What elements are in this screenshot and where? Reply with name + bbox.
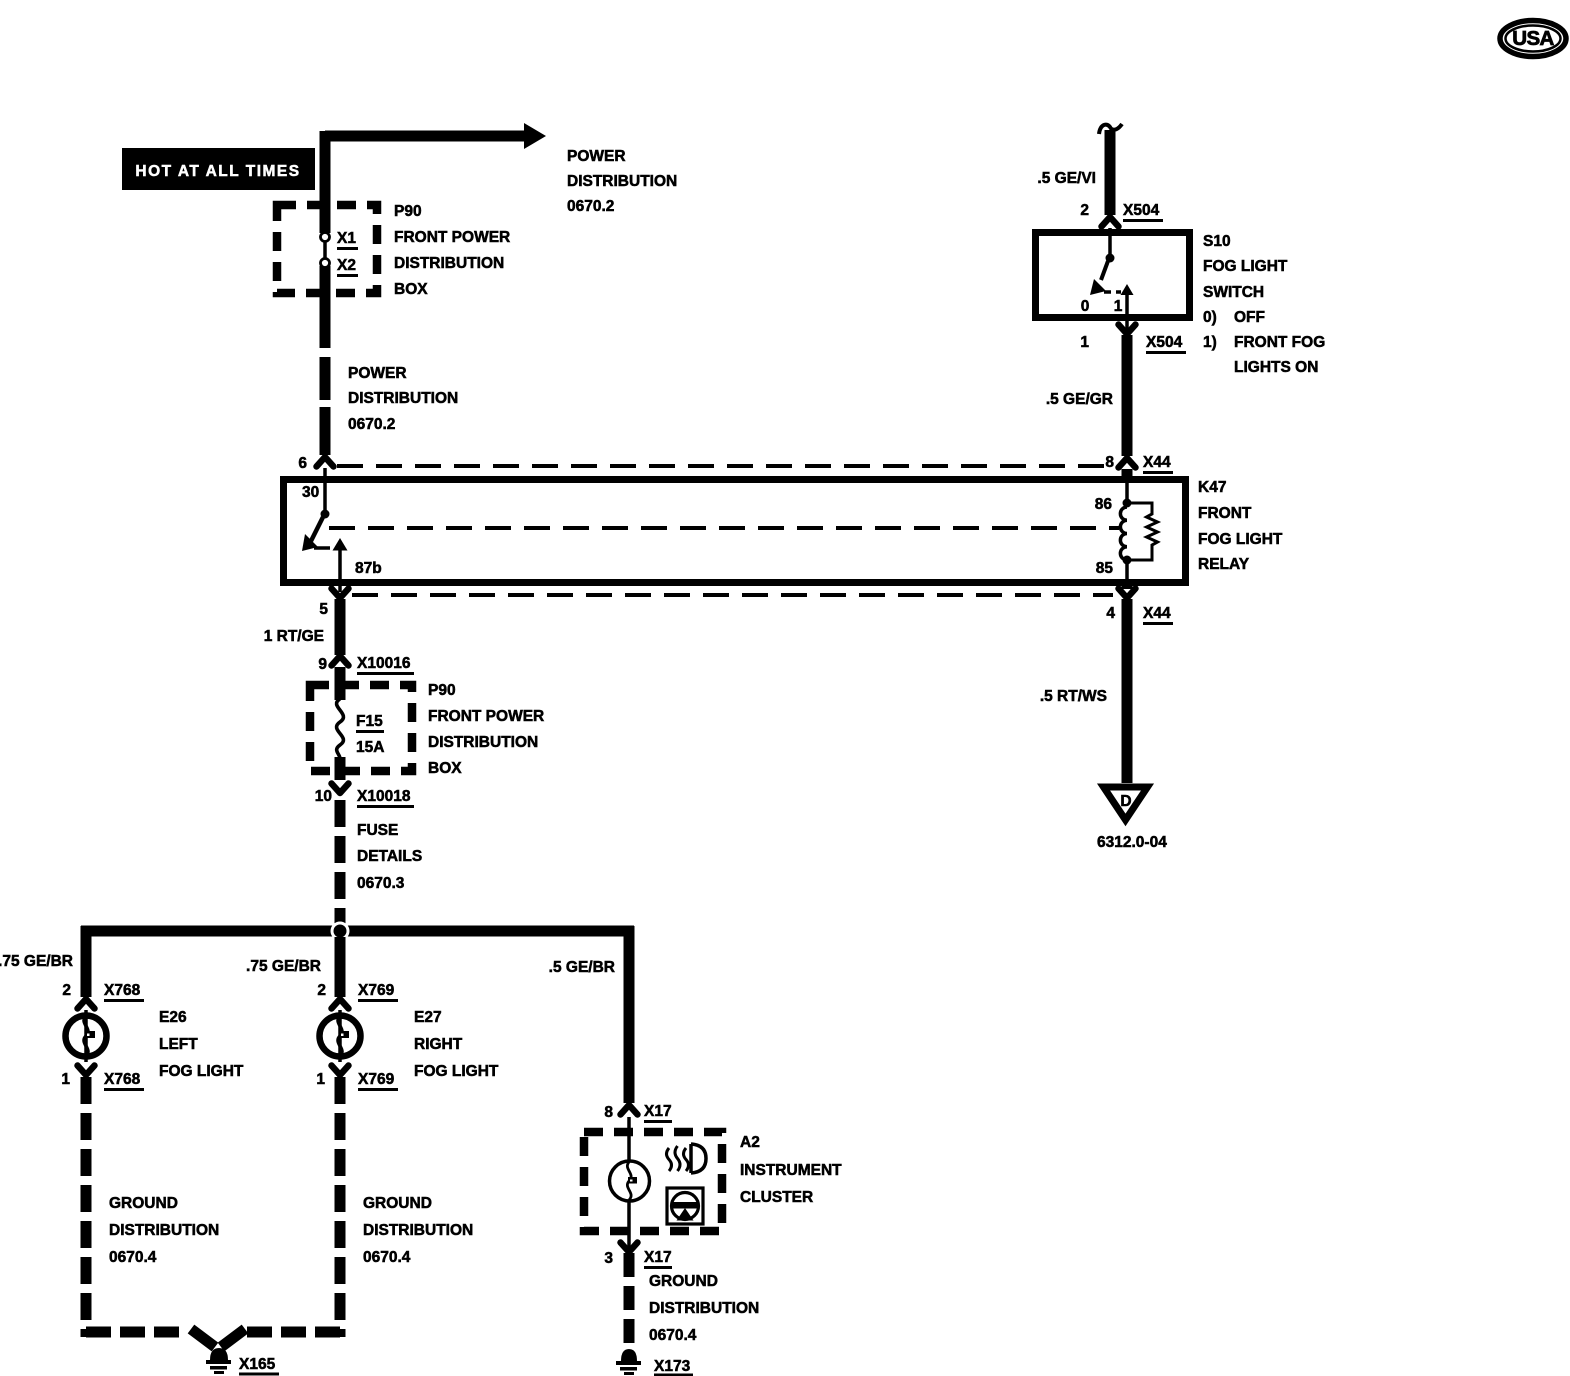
label X768 (top) [104, 982, 144, 1002]
svg-text:1: 1 [1080, 334, 1089, 351]
P90 front power distribution box (fuse, dashed) [310, 685, 412, 771]
svg-text:P90: P90 [394, 203, 422, 220]
fuse F15 15A [337, 699, 344, 758]
svg-text:30: 30 [302, 484, 319, 501]
label POWER DISTRIBUTION 0670.2 (top) [567, 148, 677, 215]
relay coil lead from pin 86 [1125, 479, 1129, 501]
arrow to power distribution page [524, 123, 546, 149]
svg-text:X165: X165 [239, 1356, 276, 1373]
svg-text:RIGHT: RIGHT [414, 1036, 463, 1053]
wire dashed from fuse to junction [335, 800, 346, 926]
lamp E26 left fog light [66, 1010, 107, 1062]
svg-text:1 RT/GE: 1 RT/GE [264, 628, 324, 645]
svg-text:X17: X17 [644, 1103, 672, 1120]
connector chevron X769 pin 1 [332, 1066, 349, 1076]
svg-text:15A: 15A [356, 739, 384, 756]
svg-text:INSTRUMENT: INSTRUMENT [740, 1162, 842, 1179]
switch lead in [1108, 228, 1112, 255]
wire to E26 [81, 926, 92, 997]
svg-text:8: 8 [604, 1104, 613, 1121]
connector chevron pin 6 [317, 457, 334, 467]
wire dashed E27 to ground [335, 1077, 346, 1337]
USA logo [1500, 21, 1566, 57]
wire to E27 [335, 937, 346, 997]
svg-text:0670.4: 0670.4 [363, 1249, 411, 1266]
svg-text:F15: F15 [356, 713, 383, 730]
svg-text:5: 5 [319, 601, 328, 618]
wire V dip to ground (right side) [221, 1329, 245, 1347]
small dash to 87b contact [314, 546, 330, 550]
wire .5 RT/WS [1122, 599, 1133, 783]
label X173 [654, 1358, 693, 1376]
svg-text:1: 1 [61, 1071, 70, 1088]
wire dashed E26 to ground [81, 1077, 92, 1337]
label S10 FOG LIGHT SWITCH [1203, 233, 1325, 376]
switch pivot [1106, 254, 1115, 263]
svg-text:FRONT FOG: FRONT FOG [1234, 334, 1325, 351]
label X10018 [357, 788, 414, 808]
connector chevron X44 pin 4 [1119, 589, 1136, 599]
svg-text:S10: S10 [1203, 233, 1231, 250]
label GROUND DISTRIBUTION 0670.4 (middle) [363, 1195, 473, 1266]
svg-text:2: 2 [1080, 202, 1089, 219]
svg-text:0670.4: 0670.4 [649, 1327, 697, 1344]
label X10016 [357, 655, 414, 675]
label X2 [337, 257, 358, 277]
svg-text:DETAILS: DETAILS [357, 848, 422, 865]
wire V dip to ground (left side) [191, 1329, 215, 1347]
label X1 [337, 230, 358, 250]
svg-text:BOX: BOX [394, 281, 428, 298]
relay suppression resistor [1131, 503, 1158, 560]
wire into relay coil [1122, 469, 1133, 479]
label F15 15A [356, 713, 384, 756]
A2 instrument cluster box (dashed) [584, 1132, 722, 1231]
connector chevron X769 pin 2 [332, 999, 349, 1009]
svg-text:86: 86 [1095, 496, 1113, 513]
svg-text:GROUND: GROUND [363, 1195, 432, 1212]
svg-text:FOG LIGHT: FOG LIGHT [1203, 258, 1288, 275]
label X769 (bottom) [358, 1071, 398, 1091]
svg-text:85: 85 [1096, 560, 1114, 577]
svg-text:X2: X2 [337, 257, 356, 274]
relay coil K47 [1120, 507, 1127, 560]
svg-text:1): 1) [1203, 334, 1217, 351]
lead into cluster [627, 1117, 631, 1162]
svg-text:FOG LIGHT: FOG LIGHT [1198, 531, 1283, 548]
bus wire to fog lights [81, 926, 634, 937]
wire dashed A2 to ground [624, 1253, 635, 1346]
svg-text:87b: 87b [355, 560, 382, 577]
svg-text:X769: X769 [358, 982, 395, 999]
svg-text:LEFT: LEFT [159, 1036, 198, 1053]
label A2 INSTRUMENT CLUSTER [740, 1134, 842, 1206]
wire out of fuse box [335, 757, 346, 780]
wire .5 GE/VI [1105, 130, 1116, 215]
svg-text:HOT AT ALL TIMES: HOT AT ALL TIMES [135, 163, 300, 180]
svg-text:GROUND: GROUND [109, 1195, 178, 1212]
svg-text:.5 GE/BR: .5 GE/BR [549, 959, 615, 976]
svg-text:0670.4: 0670.4 [109, 1249, 157, 1266]
pin 30 lead [323, 468, 327, 511]
svg-text:X173: X173 [654, 1358, 691, 1375]
svg-text:X10016: X10016 [357, 655, 411, 672]
svg-text:DISTRIBUTION: DISTRIBUTION [428, 734, 538, 751]
lamp E27 right fog light [320, 1010, 361, 1062]
mechanical link (dashed) to coil [329, 526, 1119, 530]
connector chevron X17 pin 8 [621, 1105, 638, 1115]
connector X1 [321, 233, 330, 242]
wire .5 GE/GR [1122, 335, 1133, 456]
wire: vertical feed through P90 [320, 131, 331, 348]
svg-text:1: 1 [1114, 298, 1123, 315]
svg-text:OFF: OFF [1234, 309, 1265, 326]
connector boundary X44 (bottom, dashed) [352, 593, 1113, 597]
svg-text:3: 3 [604, 1250, 613, 1267]
svg-text:X504: X504 [1146, 334, 1183, 351]
svg-text:D: D [1120, 793, 1131, 810]
wire below relay pin 85 [1122, 583, 1133, 589]
connector chevron pin 9 [332, 656, 349, 666]
fog light icon [667, 1144, 707, 1173]
label X44 (top) [1143, 454, 1173, 474]
svg-text:10: 10 [315, 788, 332, 805]
svg-text:GROUND: GROUND [649, 1273, 718, 1290]
contact 1 arrow [1121, 284, 1134, 295]
svg-text:DISTRIBUTION: DISTRIBUTION [567, 173, 677, 190]
svg-text:0670.2: 0670.2 [348, 416, 395, 433]
svg-text:X504: X504 [1123, 202, 1160, 219]
svg-text:9: 9 [318, 656, 327, 673]
svg-text:X17: X17 [644, 1249, 672, 1266]
svg-text:1: 1 [316, 1071, 325, 1088]
wire dashed bottom run (left) [86, 1327, 183, 1338]
svg-text:.5 GE/VI: .5 GE/VI [1037, 170, 1096, 187]
svg-text:SWITCH: SWITCH [1203, 284, 1264, 301]
svg-text:FOG LIGHT: FOG LIGHT [414, 1063, 499, 1080]
switch blade [1101, 261, 1108, 280]
svg-text:6: 6 [298, 455, 307, 472]
svg-text:6312.0-04: 6312.0-04 [1097, 834, 1167, 851]
relay switch blade arrowhead [302, 534, 318, 551]
connector chevron X17 pin 3 [621, 1243, 638, 1253]
svg-text:0670.2: 0670.2 [567, 198, 614, 215]
fog light indicator bulb [610, 1161, 650, 1201]
svg-text:DISTRIBUTION: DISTRIBUTION [109, 1222, 219, 1239]
wire into fuse box [335, 667, 346, 700]
label X504 (bottom) [1146, 334, 1186, 354]
87b lead down [338, 550, 342, 592]
label X504 (top) [1123, 202, 1163, 222]
label P90 FRONT POWER DISTRIBUTION BOX (fuse) [428, 682, 544, 777]
connector chevron X504 pin 2 [1102, 217, 1119, 227]
label X17 (bottom) [644, 1249, 672, 1269]
switch dashed link [1104, 290, 1121, 294]
wire dashed bottom run (middle) [247, 1327, 345, 1338]
svg-text:P90: P90 [428, 682, 456, 699]
label E26 LEFT FOG LIGHT [159, 1009, 244, 1080]
svg-text:.5 GE/GR: .5 GE/GR [1046, 391, 1113, 408]
svg-text:X44: X44 [1143, 605, 1171, 622]
ground triangle D [1104, 787, 1148, 820]
svg-text:X769: X769 [358, 1071, 395, 1088]
svg-text:BOX: BOX [428, 760, 462, 777]
svg-text:4: 4 [1106, 605, 1115, 622]
connector chevron X504 pin 1 [1119, 325, 1136, 335]
wire: dashed continuation to power distribution 0670.2 [320, 357, 331, 455]
svg-text:X10018: X10018 [357, 788, 411, 805]
svg-text:POWER: POWER [567, 148, 626, 165]
label K47 FRONT FOG LIGHT RELAY [1198, 479, 1283, 573]
87b contact arrow [333, 538, 348, 551]
wire to A2 instrument cluster [624, 926, 635, 1103]
svg-text:RELAY: RELAY [1198, 556, 1250, 573]
svg-text:E27: E27 [414, 1009, 442, 1026]
svg-text:FUSE: FUSE [357, 822, 398, 839]
svg-text:K47: K47 [1198, 479, 1226, 496]
ground X165 [206, 1348, 231, 1374]
svg-text:DISTRIBUTION: DISTRIBUTION [363, 1222, 473, 1239]
relay K47 box [284, 480, 1186, 583]
svg-text:E26: E26 [159, 1009, 187, 1026]
svg-text:DISTRIBUTION: DISTRIBUTION [348, 390, 458, 407]
svg-text:DISTRIBUTION: DISTRIBUTION [649, 1300, 759, 1317]
wire junction ring [331, 922, 350, 941]
pin 85 lead [1125, 560, 1129, 583]
svg-text:.75 GE/BR: .75 GE/BR [246, 958, 321, 975]
wire 1 RT/GE [335, 599, 346, 655]
connector boundary X44 (top, dashed) [337, 464, 1108, 468]
relay switch pivot [321, 510, 330, 519]
connector chevron X768 pin 2 [78, 999, 95, 1009]
connector chevron pin 10 [332, 784, 349, 794]
label HOT AT ALL TIMES [122, 148, 315, 190]
label E27 RIGHT FOG LIGHT [414, 1009, 499, 1080]
svg-text:X44: X44 [1143, 454, 1171, 471]
switch blade arrowhead [1090, 279, 1106, 295]
svg-text:0): 0) [1203, 309, 1217, 326]
svg-text:0: 0 [1081, 298, 1090, 315]
label X768 (bottom) [104, 1071, 144, 1091]
svg-text:8: 8 [1105, 454, 1114, 471]
svg-text:X1: X1 [337, 230, 356, 247]
svg-text:POWER: POWER [348, 365, 407, 382]
svg-text:.5 RT/WS: .5 RT/WS [1040, 688, 1107, 705]
svg-text:DISTRIBUTION: DISTRIBUTION [394, 255, 504, 272]
svg-text:FOG LIGHT: FOG LIGHT [159, 1063, 244, 1080]
svg-text:USA: USA [1512, 27, 1554, 50]
steering wheel icon [667, 1188, 703, 1224]
S10 fog light switch box [1036, 233, 1190, 318]
svg-text:X768: X768 [104, 982, 141, 999]
wire junction dot [334, 925, 347, 938]
connector X2 [321, 259, 330, 268]
wire: battery feed horizontal to power distribution [325, 131, 527, 142]
svg-text:FRONT: FRONT [1198, 505, 1252, 522]
label POWER DISTRIBUTION 0670.2 (mid) [348, 365, 458, 433]
svg-text:X768: X768 [104, 1071, 141, 1088]
svg-text:FRONT POWER: FRONT POWER [394, 229, 510, 246]
P90 front power distribution box (top, dashed) [277, 205, 377, 293]
label P90 FRONT POWER DISTRIBUTION BOX (top) [394, 203, 510, 298]
svg-text:2: 2 [62, 982, 71, 999]
label X165 [239, 1356, 279, 1376]
svg-text:CLUSTER: CLUSTER [740, 1189, 813, 1206]
label FUSE DETAILS 0670.3 [357, 822, 422, 892]
label GROUND DISTRIBUTION 0670.4 (right) [649, 1273, 759, 1344]
svg-text:2: 2 [317, 982, 326, 999]
ground X173 [616, 1349, 641, 1375]
svg-text:.75 GE/BR: .75 GE/BR [0, 953, 73, 970]
lead out of bulb [627, 1200, 631, 1248]
contact 1 lead [1125, 295, 1129, 331]
pin 85 node [1123, 556, 1132, 565]
connector chevron X44 pin 8 [1119, 458, 1136, 468]
svg-text:A2: A2 [740, 1134, 760, 1151]
label GROUND DISTRIBUTION 0670.4 (left) [109, 1195, 219, 1266]
relay switch blade [311, 517, 323, 541]
label X44 (bottom) [1143, 605, 1173, 625]
svg-text:0670.3: 0670.3 [357, 875, 405, 892]
label X17 (top) [644, 1103, 672, 1123]
label X769 (top) [358, 982, 398, 1002]
svg-text:LIGHTS ON: LIGHTS ON [1234, 359, 1318, 376]
pin 86 node [1123, 499, 1132, 508]
connector chevron X768 pin 1 [78, 1066, 95, 1076]
svg-text:FRONT POWER: FRONT POWER [428, 708, 544, 725]
wire break symbol (top of .5 GE/VI) [1099, 124, 1122, 134]
connector chevron pin 5 [332, 589, 349, 599]
